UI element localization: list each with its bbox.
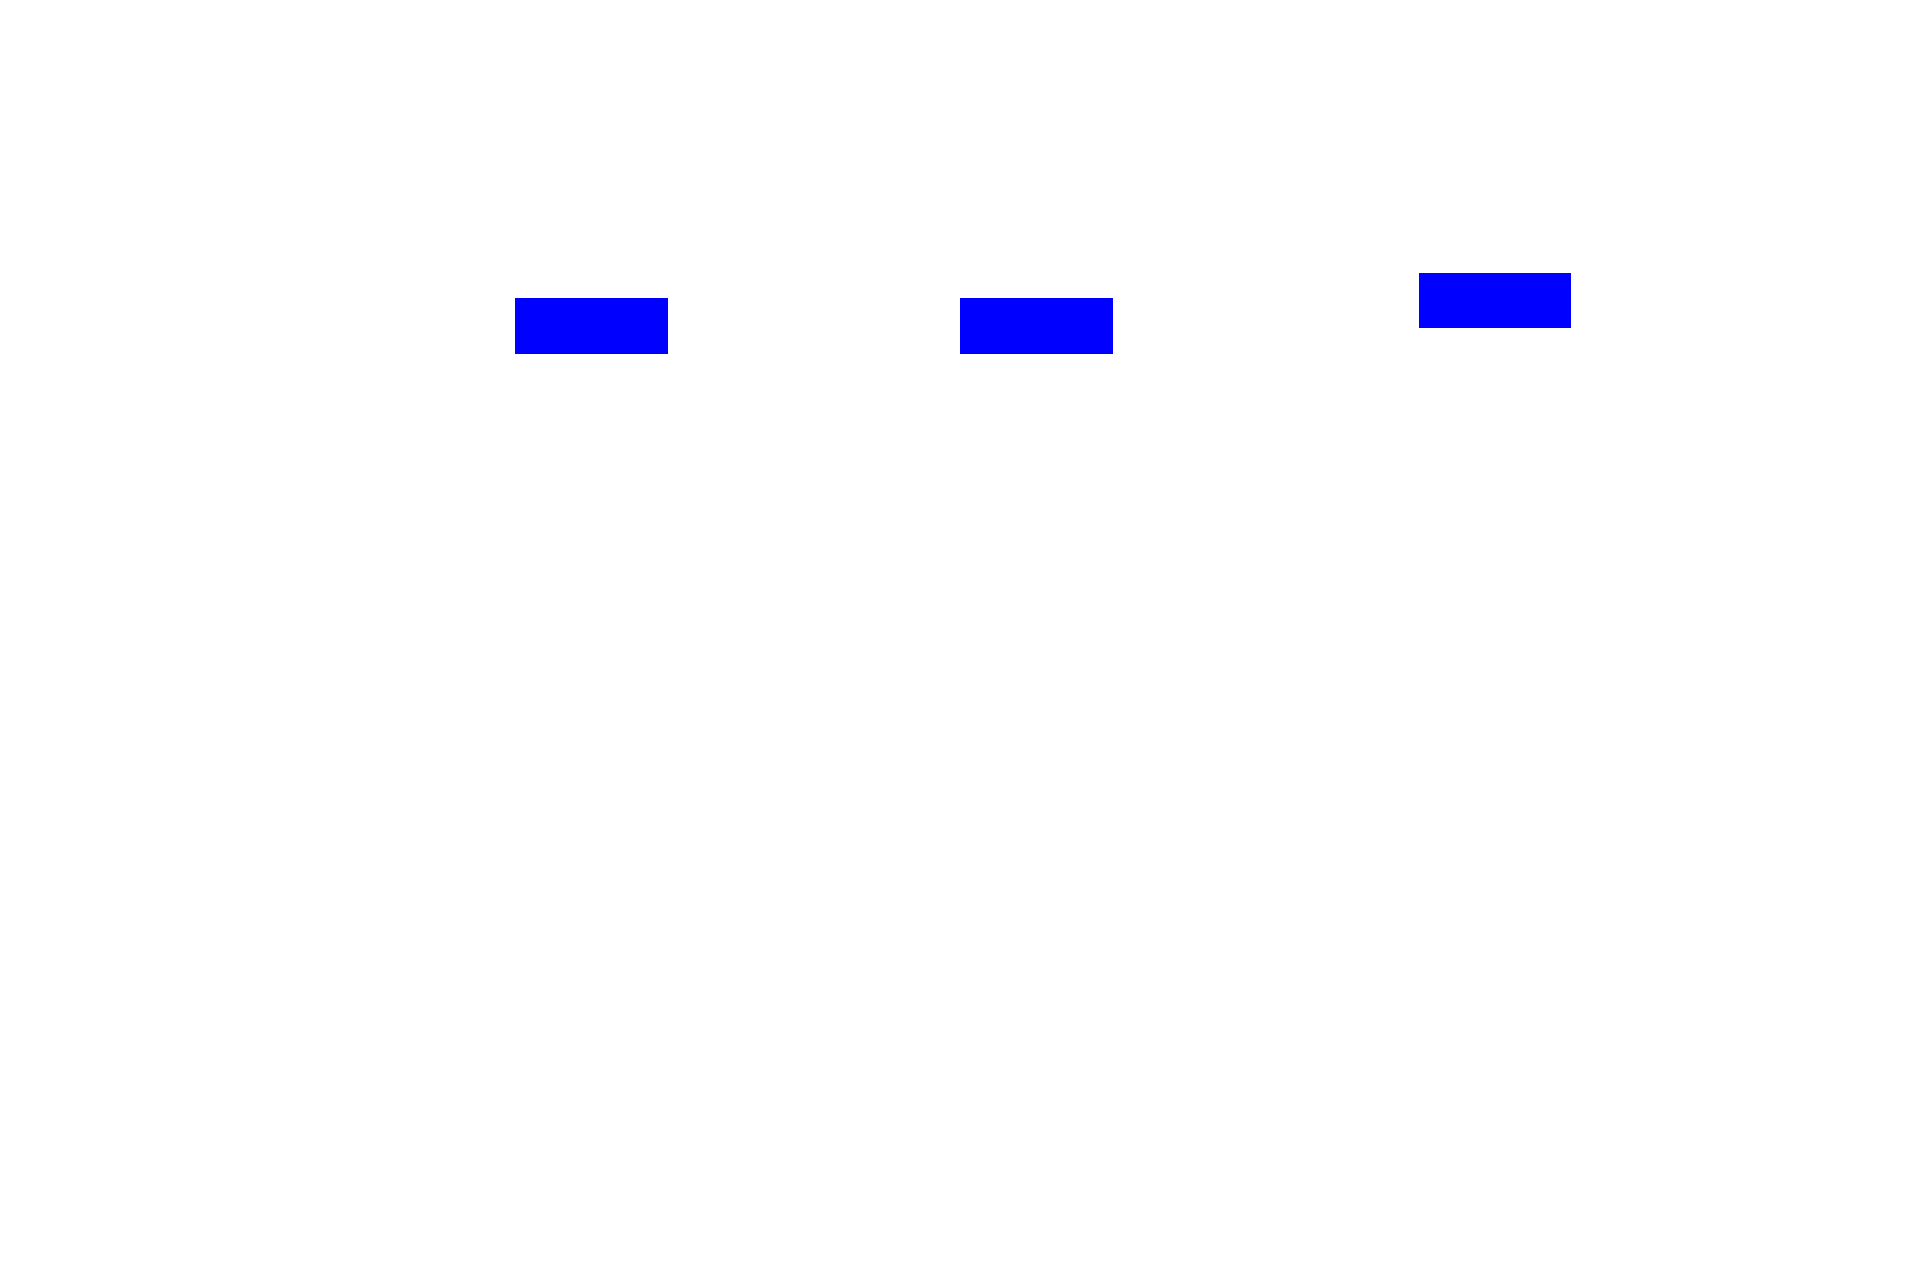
blue rectangle 2 — [960, 298, 1113, 354]
blue rectangle 3 — [1419, 273, 1571, 328]
blue rectangle 1 — [515, 298, 668, 354]
